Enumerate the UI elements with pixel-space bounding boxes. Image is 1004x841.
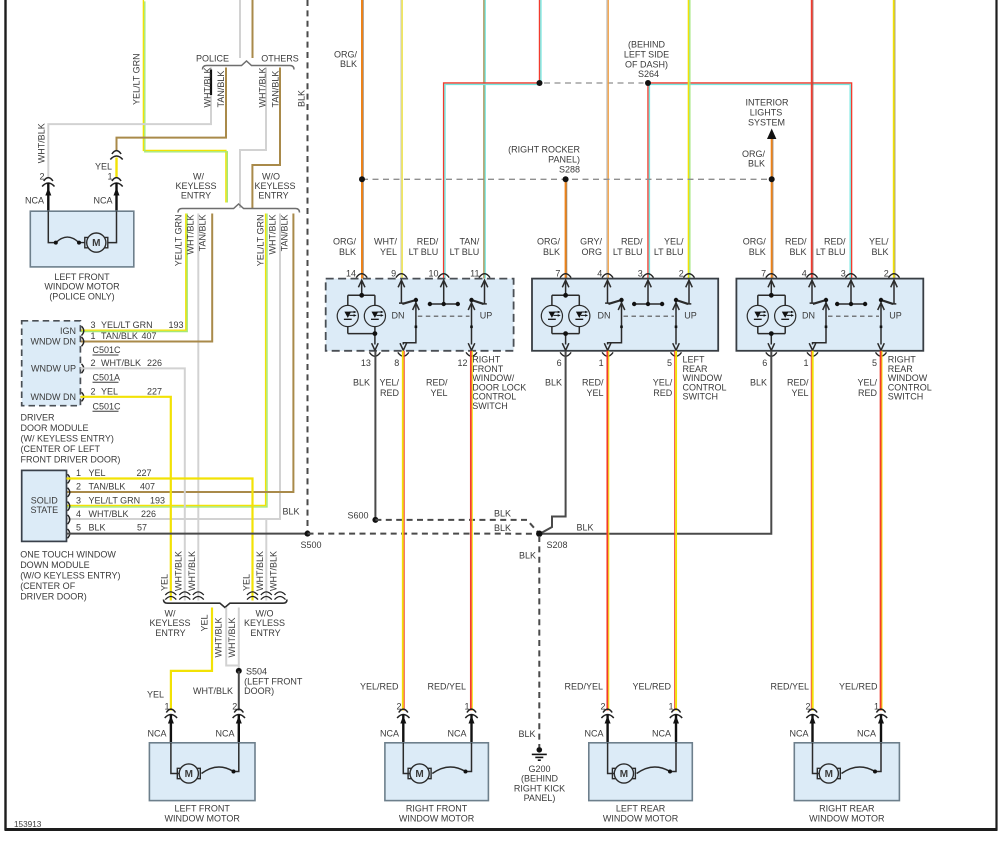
svg-text:UP: UP <box>684 311 697 321</box>
label ORG/BLK (left) <box>334 50 358 70</box>
junction dot S264 <box>645 80 651 86</box>
UP shaft pin 2 <box>687 281 692 304</box>
arrows inside box <box>562 280 692 350</box>
svg-text:14: 14 <box>346 269 356 279</box>
svg-text:226: 226 <box>141 509 156 519</box>
svg-text:WINDOW MOTOR: WINDOW MOTOR <box>809 813 885 823</box>
wire YEL one touch pin 1 down to lower brace <box>67 479 253 601</box>
svg-text:UP: UP <box>889 311 902 321</box>
connector arcs right front motor <box>397 709 478 718</box>
label W/ KEYLESS ENTRY (upper) <box>175 172 216 201</box>
pin 2 YEL 227 labels <box>91 386 163 396</box>
svg-text:BLK: BLK <box>494 523 511 533</box>
connector arcs police motor pin 1 upper <box>110 151 122 160</box>
svg-text:(POLICE ONLY): (POLICE ONLY) <box>49 291 114 301</box>
svg-text:YEL/: YEL/ <box>379 378 399 388</box>
pin 7 riser <box>770 281 772 295</box>
LED top rail <box>552 294 579 296</box>
label W/ KEYLESS ENTRY (lower) <box>149 608 190 638</box>
DN lever <box>608 300 621 304</box>
wire ORG/BLK from S288 to left rear switch pin 7 <box>566 179 567 278</box>
svg-text:W/: W/ <box>193 172 204 182</box>
svg-text:STATE: STATE <box>30 505 58 515</box>
svg-text:ORG/: ORG/ <box>743 237 767 247</box>
svg-text:SOLID: SOLID <box>31 495 59 505</box>
svg-text:PANEL): PANEL) <box>524 793 556 803</box>
svg-text:WINDOW MOTOR: WINDOW MOTOR <box>603 813 679 823</box>
pin 4 WHT/BLK 226 labels <box>76 509 156 519</box>
svg-text:BLK: BLK <box>750 378 767 388</box>
svg-text:8: 8 <box>394 358 399 368</box>
svg-text:3: 3 <box>76 496 81 506</box>
pin 13 exit drop <box>374 334 376 345</box>
wire WHT/BLK POLICE branch to police motor pin 2 <box>48 68 211 178</box>
svg-text:RED: RED <box>380 388 400 398</box>
svg-text:2: 2 <box>679 269 684 279</box>
svg-text:M: M <box>185 769 193 780</box>
svg-text:57: 57 <box>137 523 147 533</box>
svg-text:BLK: BLK <box>519 551 536 561</box>
svg-text:LEFT SIDE: LEFT SIDE <box>624 50 669 60</box>
wire ORG/BLK to right front switch pin 14 <box>362 0 363 279</box>
wire YEL/LT GRN W/O keyless to one touch module pin 3 <box>67 214 268 507</box>
junction dot S208 <box>536 531 542 537</box>
connector arcs police motor pin 2 <box>42 178 54 187</box>
arrow up police pin 1 <box>114 188 120 196</box>
contact row pin 3 <box>837 281 865 304</box>
svg-text:YEL: YEL <box>241 574 251 591</box>
svg-text:153913: 153913 <box>14 820 42 829</box>
svg-text:NCA: NCA <box>147 729 166 739</box>
wire YEL/RED left rear switch pin 5 to motor <box>675 351 676 711</box>
wire labels below RF pins <box>353 378 448 399</box>
svg-text:FRONT DRIVER DOOR): FRONT DRIVER DOOR) <box>21 455 121 465</box>
wire YEL below lower brace to left front motor pin 1 <box>171 608 212 711</box>
LED lamp 1 <box>747 305 768 326</box>
label LEFT REAR WINDOW CONTROL SWITCH <box>683 355 727 402</box>
arrows inside box <box>768 280 897 350</box>
svg-text:12: 12 <box>457 358 467 368</box>
module pin hooks <box>82 326 84 401</box>
connector arcs bottom pins LR <box>560 352 681 356</box>
svg-text:RIGHT REAR: RIGHT REAR <box>819 804 875 814</box>
svg-text:193: 193 <box>169 320 184 330</box>
DN lever <box>402 300 416 304</box>
junction dots inside box <box>769 293 774 298</box>
label INTERIOR LIGHTS SYSTEM <box>745 98 789 128</box>
svg-text:(LEFT FRONT: (LEFT FRONT <box>244 676 303 686</box>
svg-text:10: 10 <box>428 269 438 279</box>
svg-text:WHT/: WHT/ <box>374 237 397 247</box>
black overlay segment on POLICE WHT/BLK <box>210 70 212 96</box>
label RIGHT REAR WINDOW CONTROL SWITCH <box>888 355 932 402</box>
svg-text:ENTRY: ENTRY <box>250 628 280 638</box>
svg-text:NCA: NCA <box>93 196 112 206</box>
svg-text:(W/O KEYLESS ENTRY): (W/O KEYLESS ENTRY) <box>20 571 120 581</box>
wire RED/LT BLU from top through junction to pin 10 <box>444 0 541 279</box>
LED branches <box>552 295 579 333</box>
pin 7 riser <box>565 281 567 295</box>
svg-text:ENTRY: ENTRY <box>258 191 288 201</box>
wire WHT/YEL to pin 9 <box>401 0 402 279</box>
LED top rail <box>348 294 375 296</box>
svg-text:RED/YEL: RED/YEL <box>770 682 809 692</box>
svg-text:WHT/BLK: WHT/BLK <box>174 551 184 591</box>
pin 6 exit drop <box>565 334 567 345</box>
connector arcs bottom pins RF <box>369 352 477 356</box>
DN shaft pin 4 <box>810 281 815 303</box>
svg-text:M: M <box>620 769 628 780</box>
driver door module box <box>22 321 81 406</box>
svg-text:C501A: C501A <box>93 372 121 382</box>
DN drop <box>813 302 827 345</box>
svg-text:NCA: NCA <box>652 729 671 739</box>
wire NCA black left front pin 2 <box>238 715 240 744</box>
police motor brush arc <box>56 237 85 243</box>
brace keyless split (upper) <box>178 204 300 213</box>
pin 5 BLK 57 labels <box>76 523 147 533</box>
pin numbers RF top <box>346 269 480 279</box>
label DRIVER DOOR MODULE block <box>21 413 121 465</box>
LED lamp 1 <box>541 305 562 326</box>
svg-text:LT BLU: LT BLU <box>816 247 846 257</box>
junction dot S288 on x=362 <box>359 176 365 182</box>
svg-text:OF DASH): OF DASH) <box>625 60 668 70</box>
pin 2 WHT/BLK 226 labels <box>91 358 163 368</box>
pin 14 riser <box>361 281 363 295</box>
svg-text:BLK: BLK <box>494 509 511 519</box>
DN shaft pin 4 <box>605 281 610 303</box>
svg-text:RED: RED <box>653 388 673 398</box>
svg-text:NCA: NCA <box>25 196 44 206</box>
wire labels above RF pins <box>333 237 480 258</box>
svg-text:2: 2 <box>91 386 96 396</box>
svg-text:BLK: BLK <box>577 523 594 533</box>
svg-text:WNDW DN: WNDW DN <box>31 336 77 346</box>
svg-text:YEL/: YEL/ <box>869 237 889 247</box>
svg-text:6: 6 <box>762 358 767 368</box>
svg-text:POLICE: POLICE <box>196 54 229 64</box>
svg-text:YEL/: YEL/ <box>857 378 877 388</box>
UP drop <box>471 302 473 345</box>
contact row pin 10 <box>430 281 458 304</box>
UP shaft pin 11 <box>482 281 487 304</box>
dashed wire S600 to S208 <box>375 520 539 534</box>
wire BLK one touch pin 5 to S500 <box>67 533 308 535</box>
left front motor brush arc <box>202 767 234 774</box>
dashed mechanical link <box>828 315 879 317</box>
svg-text:RED/: RED/ <box>426 378 448 388</box>
svg-text:BLK: BLK <box>543 247 560 257</box>
svg-text:NCA: NCA <box>789 729 808 739</box>
svg-text:UP: UP <box>480 311 493 321</box>
svg-text:W/: W/ <box>165 608 176 618</box>
pin numbers LR bottom <box>557 358 672 368</box>
svg-text:DN: DN <box>598 311 611 321</box>
arrow to interior lights system <box>767 129 776 140</box>
connector arcs bottom pins RR <box>766 352 887 356</box>
wire WHT/BLK below S504 to motor pin 2 <box>238 671 240 711</box>
svg-text:TAN/BLK: TAN/BLK <box>280 215 290 252</box>
label RIGHT FRONT WINDOW/DOOR LOCK CONTROL SWITCH <box>472 355 526 412</box>
wire RED/YEL right front switch pin 12 to motor <box>471 351 472 711</box>
ground symbol G200 <box>537 747 543 753</box>
svg-text:RED/: RED/ <box>824 237 846 247</box>
junction dots inside box <box>563 293 568 298</box>
svg-text:C501C: C501C <box>93 345 122 355</box>
svg-text:TAN/BLK: TAN/BLK <box>89 482 126 492</box>
svg-text:227: 227 <box>137 468 152 478</box>
svg-text:RED/YEL: RED/YEL <box>427 682 466 692</box>
dashed mechanical link <box>418 315 470 317</box>
LED top rail <box>758 294 785 296</box>
wire NCA black police pin 1 <box>115 183 117 212</box>
LED bottom rail <box>348 333 375 335</box>
svg-text:SWITCH: SWITCH <box>888 392 924 402</box>
svg-text:YEL: YEL <box>101 386 118 396</box>
svg-text:TAN/BLK: TAN/BLK <box>216 71 226 108</box>
junction dot on RED/LT BLU <box>537 80 543 86</box>
connector arcs left rear motor <box>601 709 682 718</box>
wire YEL/LT BLU to left rear switch pin 2 <box>688 0 689 279</box>
wire NCA black left front pin 1 <box>170 715 172 744</box>
connector arcs on six wires above lower brace <box>165 592 285 600</box>
label S288 (RIGHT ROCKER PANEL) <box>508 145 580 175</box>
LED branches <box>758 295 785 333</box>
svg-text:KEYLESS: KEYLESS <box>175 181 216 191</box>
svg-text:(RIGHT ROCKER: (RIGHT ROCKER <box>508 145 580 155</box>
svg-text:LT BLU: LT BLU <box>409 247 439 257</box>
svg-text:KEYLESS: KEYLESS <box>254 181 295 191</box>
svg-text:193: 193 <box>150 496 165 506</box>
svg-text:S208: S208 <box>547 540 568 550</box>
svg-text:WHT/BLK: WHT/BLK <box>187 551 197 591</box>
svg-text:RIGHT FRONT: RIGHT FRONT <box>406 804 468 814</box>
wire WHT/BLK W/O keyless to one touch module pin 4 and down <box>67 214 281 520</box>
svg-text:227: 227 <box>147 386 162 396</box>
svg-text:4: 4 <box>597 269 602 279</box>
svg-text:226: 226 <box>147 358 162 368</box>
svg-text:RIGHT KICK: RIGHT KICK <box>514 783 565 793</box>
svg-text:BLK: BLK <box>871 247 888 257</box>
svg-text:WHT/BLK: WHT/BLK <box>89 509 129 519</box>
svg-text:GRY/: GRY/ <box>580 237 602 247</box>
svg-text:TAN/BLK: TAN/BLK <box>101 331 138 341</box>
svg-text:YEL/LT GRN: YEL/LT GRN <box>255 215 265 267</box>
svg-text:BLK: BLK <box>89 523 106 533</box>
svg-text:YEL: YEL <box>200 614 210 631</box>
svg-text:YEL/LT GRN: YEL/LT GRN <box>174 215 184 267</box>
DN shaft pin 9 <box>399 281 404 303</box>
svg-text:W/O: W/O <box>262 172 280 182</box>
label G200 (BEHIND RIGHT KICK PANEL) <box>514 764 565 803</box>
svg-text:NCA: NCA <box>857 729 876 739</box>
UP lever <box>881 300 893 304</box>
motor box LEFT FRONT WINDOW MOTOR <box>149 743 255 801</box>
switch box (solid) <box>532 279 718 351</box>
svg-text:NCA: NCA <box>447 729 466 739</box>
wire RED/LT BLU from S264 right and down to right rear switch pin 3 <box>648 83 852 279</box>
brace POLICE/OTHERS <box>203 61 295 70</box>
LED lamp 2 <box>364 305 385 326</box>
svg-text:M: M <box>92 238 100 249</box>
svg-text:YEL/: YEL/ <box>664 237 684 247</box>
svg-text:YEL: YEL <box>791 388 808 398</box>
police motor internal wires <box>48 211 54 242</box>
wire RED/YEL left rear switch pin 1 to motor <box>607 351 608 711</box>
svg-text:DN: DN <box>392 311 405 321</box>
police motor box LEFT FRONT WINDOW MOTOR (POLICE ONLY) <box>30 211 134 267</box>
svg-text:RED/YEL: RED/YEL <box>564 682 603 692</box>
wire WHT/BLK down to S504 <box>238 608 240 671</box>
svg-text:5: 5 <box>667 358 672 368</box>
svg-text:KEYLESS: KEYLESS <box>149 618 190 628</box>
wire labels below LR pins <box>545 378 673 399</box>
pin 3 YEL/LT GRN 193 labels <box>91 320 184 330</box>
svg-text:6: 6 <box>557 358 562 368</box>
wire WHT/BLK W/ keyless pass-through down to lower brace <box>197 214 199 601</box>
svg-text:SWITCH: SWITCH <box>472 401 508 411</box>
svg-text:YEL/LT GRN: YEL/LT GRN <box>132 53 142 105</box>
motor box LEFT REAR WINDOW MOTOR <box>589 743 693 801</box>
svg-text:WHT/BLK: WHT/BLK <box>193 686 233 696</box>
svg-text:PANEL): PANEL) <box>548 155 580 165</box>
svg-text:NCA: NCA <box>380 729 399 739</box>
svg-text:WHT/BLK: WHT/BLK <box>186 215 196 255</box>
svg-text:DOOR): DOOR) <box>244 686 274 696</box>
svg-text:YEL: YEL <box>586 388 603 398</box>
svg-text:RED/: RED/ <box>582 378 604 388</box>
svg-text:DN: DN <box>802 311 815 321</box>
connector arcs right rear motor <box>806 709 887 718</box>
svg-text:YEL: YEL <box>380 247 397 257</box>
svg-text:RED: RED <box>858 388 878 398</box>
svg-text:TAN/: TAN/ <box>459 237 479 247</box>
svg-text:INTERIOR: INTERIOR <box>745 98 789 108</box>
svg-text:BLK: BLK <box>749 247 766 257</box>
svg-text:WHT/BLK: WHT/BLK <box>257 67 267 107</box>
svg-text:M: M <box>825 769 833 780</box>
wire YEL/LT GRN W/ keyless down to driver door module pin 3 <box>80 214 187 332</box>
svg-text:3: 3 <box>91 320 96 330</box>
dashed link S264 (between junction dots) <box>544 82 644 84</box>
svg-text:2: 2 <box>91 358 96 368</box>
svg-text:ORG/: ORG/ <box>333 237 357 247</box>
UP lever <box>472 300 484 304</box>
svg-text:S264: S264 <box>638 69 659 79</box>
wire TAN/BLK W/O keyless to one touch module pin 2 <box>67 214 294 493</box>
svg-text:4: 4 <box>76 509 81 519</box>
pin numbers RR top <box>761 269 889 279</box>
svg-text:WINDOW MOTOR: WINDOW MOTOR <box>165 813 241 823</box>
wire WHT/BLK (top, to POLICE/OTHERS brace) <box>239 0 241 58</box>
svg-text:407: 407 <box>142 331 157 341</box>
svg-text:LEFT REAR: LEFT REAR <box>616 804 666 814</box>
label LEFT FRONT WINDOW MOTOR <box>165 804 241 824</box>
wire TAN/BLK (top, to POLICE/OTHERS brace) <box>252 0 254 58</box>
UP drop <box>675 302 677 345</box>
wire WHT/BLK OTHERS branch down to keyless brace <box>240 68 266 209</box>
left front motor internal wires <box>171 743 179 774</box>
left front motor M symbol <box>177 764 200 783</box>
pin numbers LR top <box>555 269 683 279</box>
connector arcs left front motor pin 2 <box>233 709 245 718</box>
svg-text:YEL/RED: YEL/RED <box>839 682 878 692</box>
svg-text:BLK: BLK <box>340 59 357 69</box>
svg-text:WHT/BLK: WHT/BLK <box>203 67 213 107</box>
wire TAN/BLK POLICE branch <box>117 68 227 152</box>
svg-text:S500: S500 <box>301 540 322 550</box>
svg-text:YEL/LT GRN: YEL/LT GRN <box>89 496 141 506</box>
wire BLK right front switch pin 13 to S600 <box>374 351 376 520</box>
wire YEL short segment at police motor pin 1 <box>115 158 117 178</box>
svg-text:ORG/: ORG/ <box>742 149 766 159</box>
junction dot S288 center <box>563 176 569 182</box>
svg-text:BLK: BLK <box>296 90 306 107</box>
svg-text:ENTRY: ENTRY <box>181 191 211 201</box>
svg-text:9: 9 <box>391 269 396 279</box>
wire NCA black police pin 2 <box>47 183 49 212</box>
dashed splice line S288 <box>362 178 772 180</box>
svg-text:RED/: RED/ <box>787 378 809 388</box>
svg-text:YEL/LT GRN: YEL/LT GRN <box>101 320 153 330</box>
arrows inside box <box>358 280 487 350</box>
svg-text:DRIVER: DRIVER <box>21 413 56 423</box>
pin numbers RF bottom <box>361 358 468 368</box>
svg-text:1: 1 <box>803 358 808 368</box>
junction dots inside box <box>359 293 364 298</box>
svg-text:5: 5 <box>872 358 877 368</box>
label W/O KEYLESS ENTRY (lower) <box>244 608 285 638</box>
svg-text:YEL: YEL <box>95 162 112 172</box>
svg-text:S600: S600 <box>347 510 368 520</box>
svg-text:ONE TOUCH WINDOW: ONE TOUCH WINDOW <box>20 550 116 560</box>
svg-text:RED/: RED/ <box>785 237 807 247</box>
svg-text:7: 7 <box>555 269 560 279</box>
svg-text:13: 13 <box>361 358 371 368</box>
svg-text:RED/: RED/ <box>621 237 643 247</box>
LED bottom rail <box>552 333 579 335</box>
svg-text:YEL: YEL <box>430 388 447 398</box>
svg-text:407: 407 <box>140 482 155 492</box>
LED lamp 2 <box>569 305 590 326</box>
wire ORG/BLK interior lights to right rear switch pin 7 <box>772 138 773 279</box>
wire WHT/BLK continuation below pin 4 jog to lower brace <box>265 519 267 601</box>
UP shaft pin 2 <box>892 281 897 304</box>
svg-text:BLK: BLK <box>789 247 806 257</box>
connector arcs top pins LR <box>560 274 694 278</box>
svg-text:KEYLESS: KEYLESS <box>244 618 285 628</box>
motor box RIGHT FRONT WINDOW MOTOR <box>385 743 489 801</box>
svg-text:(BEHIND: (BEHIND <box>521 774 559 784</box>
wire RED/LT BLU from S264 down to left rear switch pin 3 <box>648 83 649 279</box>
label SOLID STATE <box>30 495 58 515</box>
svg-text:YEL/RED: YEL/RED <box>632 682 671 692</box>
svg-text:LT BLU: LT BLU <box>613 247 643 257</box>
DN drop <box>403 302 416 345</box>
connector arcs police motor pin 1 lower <box>110 178 122 187</box>
svg-text:3: 3 <box>638 269 643 279</box>
svg-text:1: 1 <box>599 358 604 368</box>
motor box RIGHT REAR WINDOW MOTOR <box>794 743 899 801</box>
svg-text:LT BLU: LT BLU <box>654 247 684 257</box>
svg-text:WHT/BLK: WHT/BLK <box>255 551 265 591</box>
junction dot S600 <box>372 517 378 523</box>
arrow up police pin 2 <box>45 188 51 196</box>
police motor M symbol <box>85 233 108 252</box>
svg-text:2: 2 <box>76 482 81 492</box>
wire WHT/BLK jog into S504 <box>226 608 239 666</box>
